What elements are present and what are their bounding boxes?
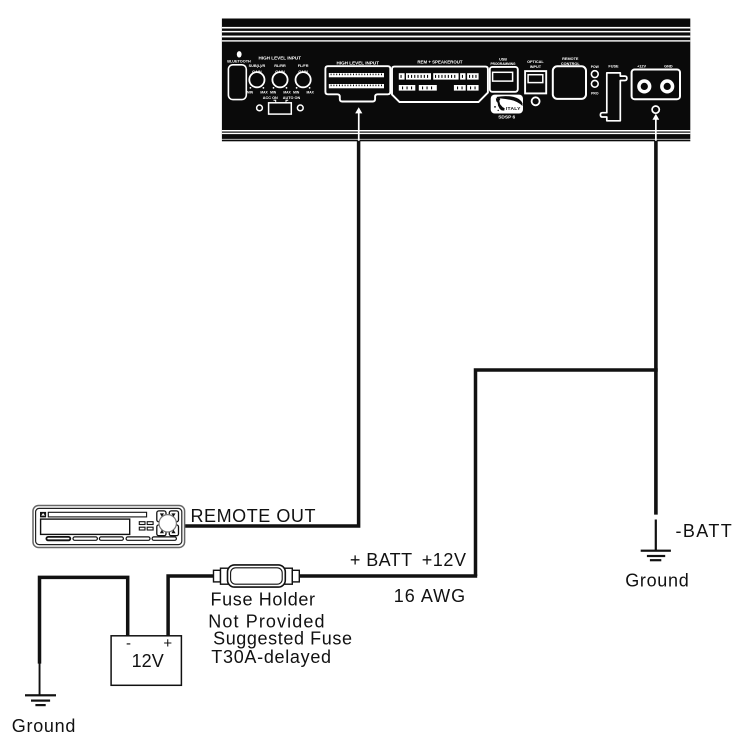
svg-text:T30A-delayed: T30A-delayed [211,647,331,667]
svg-text:+12V: +12V [422,550,467,570]
svg-text:MAX: MAX [283,90,291,94]
head unit cassette slot [41,519,130,534]
svg-text:MAX: MAX [307,90,315,94]
usb port [490,67,518,92]
svg-text:-BATT: -BATT [676,521,734,541]
power mode switch [269,103,292,114]
chassis ground screw [652,106,659,113]
wire: fuse to +BATT corner [298,574,478,578]
svg-text:SUB(L)/R: SUB(L)/R [249,64,266,68]
svg-text:MIN: MIN [247,90,254,94]
battery 12V [111,635,181,685]
svg-text:+: + [163,635,172,652]
arrow to ground screw [652,114,659,142]
knob SUB(L)/R GAIN [247,64,268,95]
wire: +BATT +12V from fuse up and right [476,370,658,576]
switch side screw left [257,105,263,111]
svg-text:HIGH LEVEL INPUT: HIGH LEVEL INPUT [337,61,380,66]
bluetooth icon [237,51,242,57]
svg-text:-: - [126,635,131,652]
high level input pin row 2 [329,84,384,88]
svg-text:POW: POW [591,65,600,69]
terminal ring +12V [637,79,651,93]
svg-text:MAX: MAX [260,90,268,94]
high level input pin row 1 [329,73,384,77]
head unit volume pad [157,511,179,536]
optical input port [525,71,546,93]
rem + speaker out pin row 1 [399,73,479,79]
svg-text:Ground: Ground [625,571,689,591]
svg-text:HIGH LEVEL INPUT: HIGH LEVEL INPUT [259,56,302,61]
svg-text:16 AWG: 16 AWG [394,586,466,606]
panel bottom stripes [222,130,690,134]
wire: battery + up to fuse holder [168,576,214,637]
high level input connector [325,66,390,101]
panel bottom edge bar [222,140,690,142]
made in italy logo [491,95,523,114]
svg-text:AUTO ON: AUTO ON [283,96,301,100]
wire: remote out (head unit to panel) [185,141,359,526]
terminal ring GND [660,79,674,93]
head unit display bar [48,512,146,517]
remote control port [553,66,586,99]
optical input screw [532,97,540,105]
rem + speaker out connector [392,67,488,102]
svg-text:MIN: MIN [293,90,300,94]
svg-text:GND: GND [664,65,673,69]
ground symbol right [641,520,671,562]
svg-text:FL/FR: FL/FR [298,64,309,68]
power/protect LEDs [591,65,600,95]
head unit (car stereo) [33,506,185,548]
svg-text:+12V: +12V [637,65,646,69]
head unit bottom buttons [46,537,176,540]
wire: -BATT down to ground [654,141,658,515]
panel top vent stripes [222,27,690,42]
svg-text:PRO: PRO [591,92,599,96]
svg-text:REM + SPEAKEROUT: REM + SPEAKEROUT [417,60,463,65]
amplifier rear panel [222,19,690,139]
power terminal block [632,70,680,100]
svg-text:REMOTE OUT: REMOTE OUT [191,506,317,526]
svg-text:+ BATT: + BATT [350,550,413,570]
arrow to high level input connector [355,107,362,141]
svg-text:PROGRAMMING: PROGRAMMING [491,62,516,66]
svg-text:FUSE: FUSE [608,65,619,69]
svg-text:SDSP 6: SDSP 6 [498,114,515,120]
ground symbol left [25,663,56,706]
switch side screw right [297,105,303,111]
rem + speaker out pin row 2 [399,85,479,91]
fuse holder symbol [214,565,300,587]
svg-text:RL/RR: RL/RR [274,64,286,68]
svg-text:ITALY: ITALY [506,106,521,112]
svg-text:ACC ON: ACC ON [263,96,278,100]
svg-text:MIN: MIN [270,90,277,94]
svg-text:Suggested Fuse: Suggested Fuse [213,628,353,648]
head unit volume knob [159,515,176,532]
fuse holder (panel) [600,73,627,121]
svg-text:Fuse Holder: Fuse Holder [211,590,316,610]
svg-text:12V: 12V [132,651,164,671]
bluetooth port [228,65,246,100]
knob FL/FR GAIN [293,64,314,95]
head unit small buttons [139,522,153,530]
knob RL/RR GAIN [270,64,291,95]
svg-text:OPTICAL: OPTICAL [527,60,544,64]
svg-text:REMOTE: REMOTE [562,57,579,61]
svg-text:INPUT: INPUT [530,65,542,69]
svg-text:Ground: Ground [12,716,76,736]
wire: battery - to chassis ground [40,577,128,663]
head unit eject icon [40,512,46,518]
svg-text:BLUETOOTH: BLUETOOTH [227,59,251,63]
switch ticks [274,100,289,103]
